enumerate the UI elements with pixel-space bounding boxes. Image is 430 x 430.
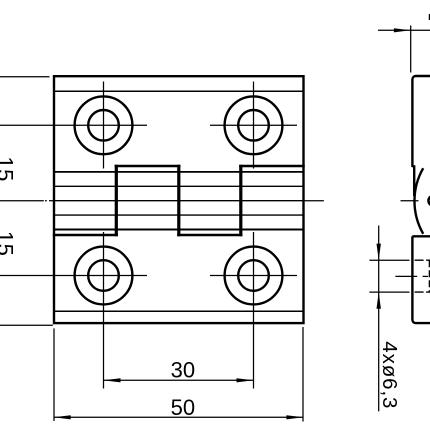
barrel centerline extension left (0, 200, 44, 202)
bottom leaf inner edge line (54, 310, 304, 312)
dimension line 30 (104, 379, 254, 381)
side view upper leaf outline (412, 76, 430, 196)
extension line 50 left (53, 328, 55, 421)
side view top extension line (410, 26, 412, 73)
6,3 dimension lower tick line (369, 291, 409, 293)
hole BL inner circle (88, 260, 119, 291)
hole BR horizontal centerline (210, 275, 297, 277)
front view body outline (54, 76, 304, 323)
side view top dimension line (378, 29, 430, 31)
6,3 arrowhead down (377, 244, 381, 261)
knuckle division line 3 (239, 165, 242, 237)
knuckle tab A bottom edge (53, 234, 118, 237)
hole TR inner circle (238, 110, 269, 141)
hole TL vertical centerline (103, 82, 105, 169)
6,3 dimension upper tick line (369, 259, 409, 261)
knuckle tab C bottom edge (177, 234, 242, 237)
hole TL inner circle (88, 110, 119, 141)
dimension line 50 (54, 416, 304, 418)
arrowhead 50 left (54, 415, 71, 419)
hole TR horizontal centerline (210, 124, 297, 126)
hole BR outer circle (225, 247, 283, 305)
hidden hole lower dashed line (415, 291, 430, 293)
hole TL horizontal centerline + 15 extension line (0, 124, 147, 126)
arrowhead 30 right (237, 378, 254, 382)
extension line bottom edge level left (0, 324, 53, 326)
top leaf inner edge line (54, 90, 304, 92)
pin lower line (54, 214, 304, 216)
hidden hole end dashed line (428, 260, 430, 292)
hole TR outer circle (225, 96, 283, 154)
pin upper line (54, 185, 304, 187)
barrel centerline (inside body) (54, 200, 304, 202)
6,3 arrowhead up (377, 292, 381, 309)
hole TR vertical centerline (253, 82, 255, 169)
barrel centerline stub right (304, 200, 324, 202)
hole TL outer circle (75, 96, 133, 154)
barrel bottom line (54, 229, 304, 231)
svg-text:50: 50 (171, 395, 195, 420)
side view knuckle bottom face edge (412, 235, 430, 237)
6,3 dimension vertical line (378, 226, 380, 412)
svg-text:15: 15 (0, 156, 18, 181)
barrel top line (54, 171, 304, 173)
svg-text:30: 30 (171, 358, 195, 383)
barrel centerline dash left (45, 200, 47, 202)
extension line top edge level left (0, 76, 50, 78)
hole BL outer circle (75, 247, 133, 305)
side view pin centerline (401, 200, 419, 202)
svg-text:4xø6,3: 4xø6,3 (378, 341, 401, 409)
side view pin hole circle (429, 196, 430, 206)
hidden hole centerline dash 1 (395, 275, 417, 277)
knuckle division line 2 (177, 165, 180, 237)
side view top right extension mark (428, 14, 430, 20)
side view top dimension arrowhead (394, 28, 411, 32)
hidden hole centerline dash 2 (423, 275, 428, 277)
arrowhead 50 right (286, 415, 303, 419)
knuckle division line 1 (115, 165, 118, 237)
side view lower leaf outline (412, 236, 430, 323)
hidden hole upper dashed line (415, 259, 430, 261)
hole BR inner circle (238, 260, 269, 291)
hole BL horizontal centerline + 15 extension line (0, 275, 147, 277)
knuckle tab D top edge (239, 165, 305, 168)
arrowhead 30 left (104, 378, 121, 382)
side view knuckle curl arc (414, 168, 423, 234)
extension line 50 right (302, 327, 304, 422)
knuckle tab B top edge (115, 165, 181, 168)
hole BR vertical centerline merged with 30-dim extension line (253, 232, 255, 389)
svg-text:15: 15 (0, 231, 18, 256)
hole BL vertical centerline merged with 30-dim extension line (103, 232, 105, 389)
